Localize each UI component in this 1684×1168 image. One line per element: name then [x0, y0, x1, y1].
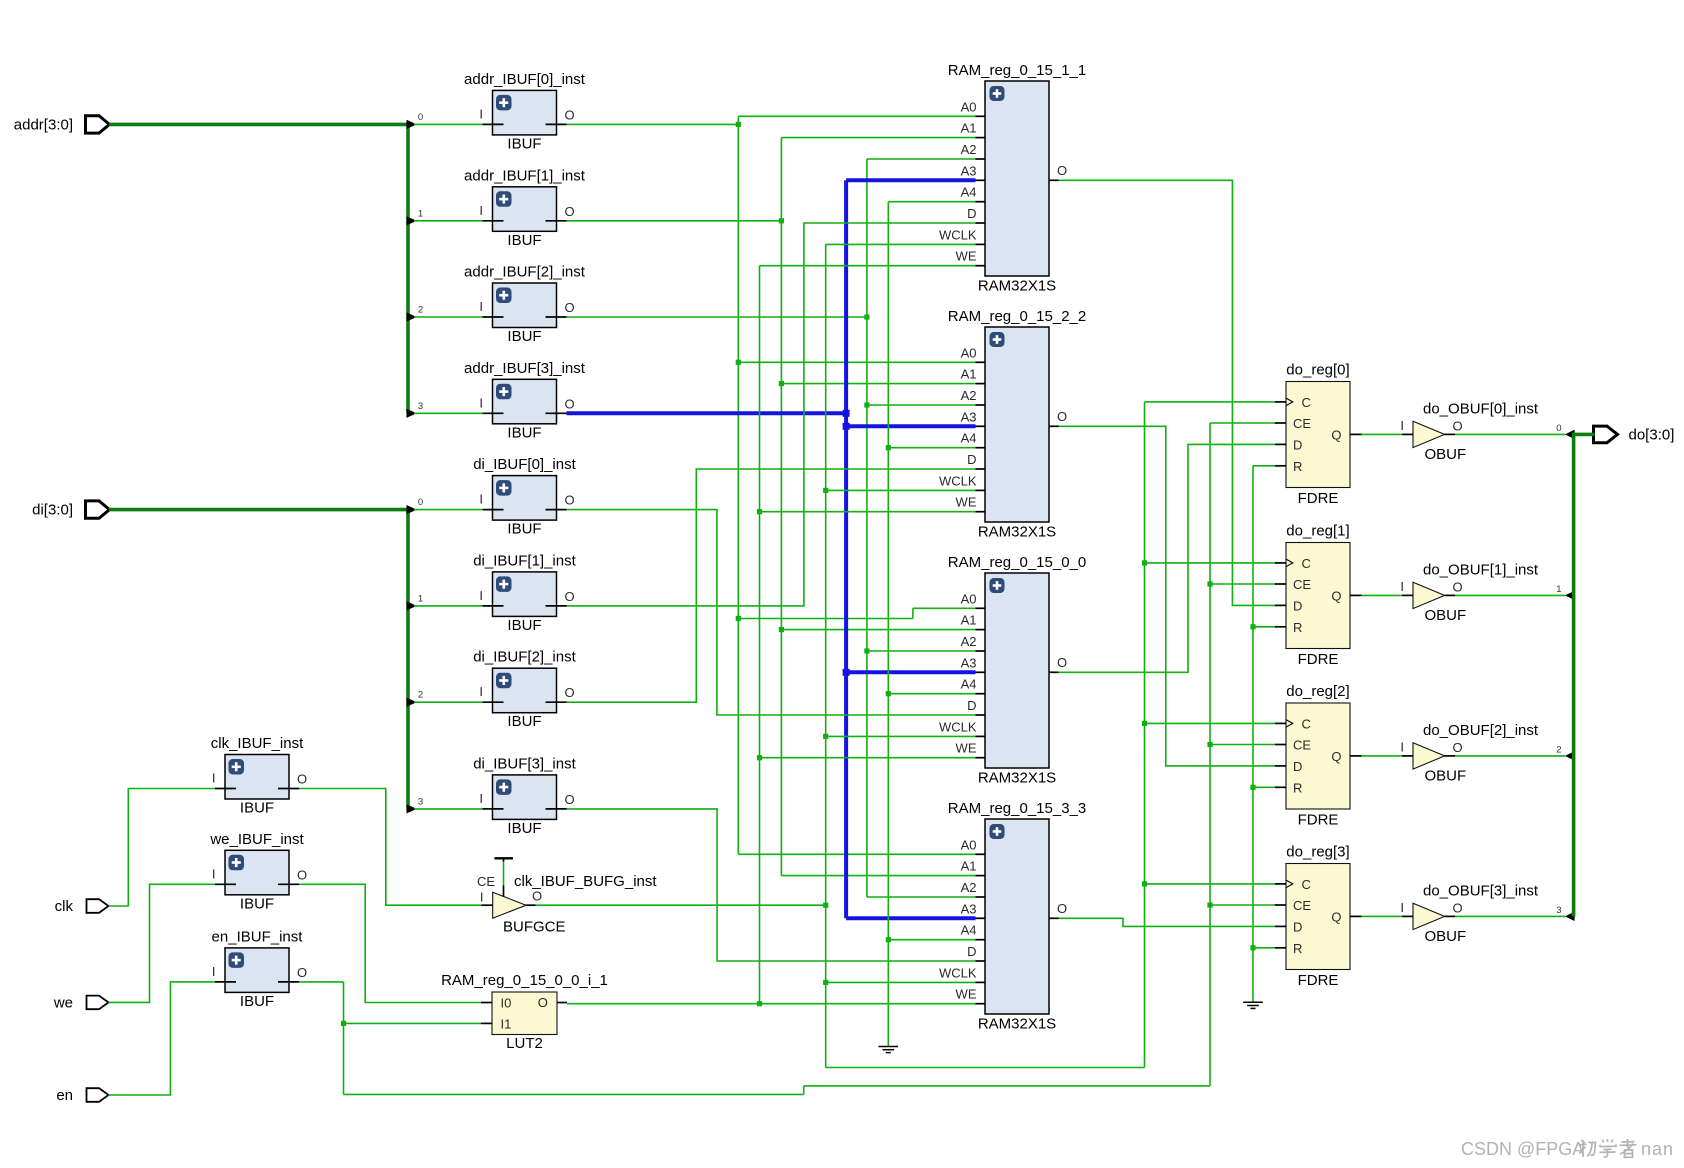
svg-text:D: D: [1293, 437, 1302, 452]
svg-text:WCLK: WCLK: [939, 473, 977, 488]
wire net ground to FDRE R pins: [1250, 466, 1274, 1002]
svg-text:WE: WE: [956, 987, 977, 1002]
svg-text:A3: A3: [961, 163, 977, 178]
svg-text:IBUF: IBUF: [507, 135, 541, 152]
svg-text:WCLK: WCLK: [939, 227, 977, 242]
svg-text:do[3:0]: do[3:0]: [1629, 426, 1675, 443]
svg-text:I: I: [1400, 579, 1404, 594]
LUT2 RAM_reg_0_15_0_0_i_1: [441, 972, 608, 1052]
svg-text:do_reg[0]: do_reg[0]: [1286, 362, 1349, 379]
svg-text:O: O: [1057, 901, 1067, 916]
svg-text:do_OBUF[1]_inst: do_OBUF[1]_inst: [1423, 561, 1539, 578]
svg-text:RAM32X1S: RAM32X1S: [978, 770, 1056, 787]
wire net ground to RAM A4 pins: [886, 202, 976, 1047]
svg-text:0: 0: [418, 112, 423, 123]
svg-text:FDRE: FDRE: [1298, 972, 1339, 989]
svg-text:1: 1: [1556, 584, 1561, 595]
svg-text:do_reg[2]: do_reg[2]: [1286, 683, 1349, 700]
svg-text:I: I: [1400, 418, 1404, 433]
svg-text:C: C: [1302, 716, 1311, 731]
IBUF di_IBUF[0]_inst: [473, 456, 576, 537]
svg-text:O: O: [1057, 655, 1067, 670]
svg-text:I: I: [479, 106, 483, 121]
svg-text:IBUF: IBUF: [240, 800, 274, 817]
svg-text:FDRE: FDRE: [1298, 651, 1339, 668]
svg-text:do_OBUF[0]_inst: do_OBUF[0]_inst: [1423, 400, 1539, 417]
wire net addr_IBUF[2] to RAM A2 pins: [567, 159, 976, 897]
svg-text:D: D: [1293, 598, 1302, 613]
wire do_OBUF[0] output to do bus tap 0: [1455, 423, 1574, 439]
wire we port to we_IBUF input: [109, 884, 216, 1002]
IBUF di_IBUF[3]_inst: [473, 755, 576, 837]
svg-text:D: D: [967, 206, 976, 221]
svg-text:A1: A1: [961, 859, 977, 874]
svg-text:IBUF: IBUF: [240, 895, 274, 912]
ground symbol (FDRE R): [1243, 1002, 1263, 1008]
bus tap arrow di[2]: [407, 690, 424, 707]
svg-text:D: D: [967, 452, 976, 467]
svg-text:RAM_reg_0_15_0_0: RAM_reg_0_15_0_0: [948, 554, 1086, 571]
bus do[3:0] trunk: [1572, 433, 1595, 917]
wire addr[3] tap to IBUF input: [414, 412, 483, 414]
FDRE do_reg[2]: [1275, 683, 1362, 829]
svg-text:A0: A0: [961, 591, 977, 606]
ground symbol (RAM A4): [879, 1047, 899, 1053]
svg-text:O: O: [1453, 418, 1463, 433]
wire di[2] tap to IBUF input: [414, 701, 483, 703]
svg-text:di_IBUF[2]_inst: di_IBUF[2]_inst: [473, 649, 576, 666]
svg-text:IBUF: IBUF: [240, 993, 274, 1010]
svg-text:I: I: [479, 588, 483, 603]
svg-text:O: O: [565, 685, 575, 700]
IBUF we_IBUF_inst: [209, 831, 307, 913]
svg-text:OBUF: OBUF: [1425, 607, 1467, 624]
OBUF do_OBUF[3]_inst: [1400, 882, 1539, 945]
bus tap arrow di[3]: [407, 796, 424, 813]
svg-text:RAM_reg_0_15_1_1: RAM_reg_0_15_1_1: [948, 62, 1086, 79]
svg-text:IBUF: IBUF: [507, 521, 541, 538]
svg-text:BUFGCE: BUFGCE: [503, 919, 566, 936]
wire RAM_reg_0_15_2_2 O to do_reg[2] D: [1059, 426, 1275, 766]
svg-text:O: O: [297, 965, 307, 980]
svg-text:Q: Q: [1331, 749, 1341, 764]
RAM32X1S RAM_reg_0_15_0_0: [939, 554, 1086, 787]
wire di[3] tap to IBUF input: [414, 808, 483, 810]
svg-text:O: O: [1453, 579, 1463, 594]
svg-text:addr_IBUF[2]_inst: addr_IBUF[2]_inst: [464, 264, 586, 281]
svg-text:RAM32X1S: RAM32X1S: [978, 278, 1056, 295]
svg-text:O: O: [565, 300, 575, 315]
wire do_OBUF[2] output to do bus tap 2: [1455, 744, 1574, 760]
svg-text:A2: A2: [961, 880, 977, 895]
FDRE do_reg[3]: [1275, 844, 1362, 990]
svg-text:we_IBUF_inst: we_IBUF_inst: [209, 831, 304, 848]
svg-text:R: R: [1293, 620, 1302, 635]
svg-text:D: D: [967, 698, 976, 713]
wire we_IBUF output to LUT2 I0: [299, 884, 481, 1002]
power symbol VCC (BUFGCE CE tie-high): [494, 858, 513, 861]
svg-text:I: I: [1400, 739, 1404, 754]
wire net di_IBUF[0] to RAM_reg_0_15_0_0 D pin: [567, 510, 976, 715]
svg-text:WE: WE: [956, 741, 977, 756]
svg-text:WCLK: WCLK: [939, 719, 977, 734]
wire do_reg[0] Q to do_OBUF[0] input: [1362, 433, 1403, 435]
svg-text:CE: CE: [477, 874, 495, 889]
input port we: [53, 994, 109, 1011]
svg-text:do_reg[1]: do_reg[1]: [1286, 523, 1349, 540]
IBUF addr_IBUF[3]_inst: [464, 360, 586, 442]
svg-text:A4: A4: [961, 923, 977, 938]
svg-text:I: I: [212, 866, 216, 881]
wire RAM_reg_0_15_3_3 O to do_reg[3] D: [1059, 918, 1275, 926]
bus addr[3:0] trunk: [109, 123, 410, 414]
svg-text:CE: CE: [1293, 738, 1311, 753]
svg-text:I: I: [479, 492, 483, 507]
svg-text:I: I: [479, 203, 483, 218]
svg-text:di_IBUF[3]_inst: di_IBUF[3]_inst: [473, 755, 576, 772]
svg-text:addr_IBUF[0]_inst: addr_IBUF[0]_inst: [464, 71, 586, 88]
svg-text:O: O: [1057, 163, 1067, 178]
svg-text:do_OBUF[3]_inst: do_OBUF[3]_inst: [1423, 882, 1539, 899]
svg-text:2: 2: [418, 305, 423, 316]
svg-text:R: R: [1293, 459, 1302, 474]
svg-text:3: 3: [1556, 905, 1561, 916]
svg-text:di[3:0]: di[3:0]: [32, 502, 73, 519]
svg-text:O: O: [297, 867, 307, 882]
wire do_OBUF[3] output to do bus tap 3: [1455, 905, 1574, 921]
watermark CSDN @FPGA... nan: [1461, 1139, 1674, 1159]
svg-text:I: I: [479, 684, 483, 699]
svg-text:O: O: [297, 772, 307, 787]
bus di[3:0] trunk: [109, 508, 410, 809]
IBUF addr_IBUF[0]_inst: [464, 71, 586, 152]
wire net addr_IBUF[3] (highlighted blue) to RAM A3 pins: [567, 180, 976, 918]
svg-text:A3: A3: [961, 409, 977, 424]
svg-text:IBUF: IBUF: [507, 232, 541, 249]
svg-text:Q: Q: [1331, 909, 1341, 924]
svg-text:IBUF: IBUF: [507, 820, 541, 837]
svg-text:I: I: [479, 299, 483, 314]
IBUF di_IBUF[1]_inst: [473, 552, 576, 634]
wire addr[1] tap to IBUF input: [414, 220, 483, 222]
wire net addr_IBUF[0] to RAM A0 pins: [567, 116, 976, 854]
wire clk port to clk_IBUF input: [109, 789, 216, 907]
svg-text:clk_IBUF_inst: clk_IBUF_inst: [211, 735, 304, 752]
svg-text:IBUF: IBUF: [507, 617, 541, 634]
svg-text:di_IBUF[1]_inst: di_IBUF[1]_inst: [473, 552, 576, 569]
wire do_OBUF[1] output to do bus tap 1: [1455, 584, 1574, 600]
svg-text:1: 1: [418, 208, 423, 219]
bus tap arrow di[1]: [407, 593, 424, 610]
svg-text:addr_IBUF[1]_inst: addr_IBUF[1]_inst: [464, 167, 586, 184]
input port addr[3:0]: [14, 116, 110, 134]
bus tap arrow addr[3]: [407, 401, 424, 418]
svg-text:RAM32X1S: RAM32X1S: [978, 524, 1056, 541]
svg-text:O: O: [565, 792, 575, 807]
input port di[3:0]: [32, 501, 109, 519]
svg-text:do_OBUF[2]_inst: do_OBUF[2]_inst: [1423, 722, 1539, 739]
wire net di_IBUF[2] to RAM_reg_0_15_2_2 D pin: [567, 469, 976, 702]
svg-text:addr[3:0]: addr[3:0]: [14, 116, 73, 133]
wire addr[2] tap to IBUF input: [414, 316, 483, 318]
svg-text:Q: Q: [1331, 588, 1341, 603]
bus tap arrow addr[0]: [407, 112, 424, 129]
svg-text:A3: A3: [961, 901, 977, 916]
svg-text:3: 3: [418, 796, 423, 807]
wire VCC to BUFGCE CE pin: [503, 862, 505, 886]
svg-text:en_IBUF_inst: en_IBUF_inst: [212, 928, 304, 945]
svg-text:en: en: [56, 1087, 73, 1104]
wire di[1] tap to IBUF input: [414, 605, 483, 607]
bus tap arrow addr[2]: [407, 305, 424, 322]
svg-text:IBUF: IBUF: [507, 713, 541, 730]
wire addr[0] tap to IBUF input: [414, 123, 483, 125]
svg-text:A4: A4: [961, 431, 977, 446]
svg-text:nan: nan: [1641, 1139, 1674, 1159]
BUFGCE clk_IBUF_BUFG_inst: [477, 873, 657, 936]
RAM32X1S RAM_reg_0_15_1_1: [939, 62, 1086, 295]
svg-text:A2: A2: [961, 388, 977, 403]
svg-text:O: O: [565, 589, 575, 604]
svg-text:FDRE: FDRE: [1298, 812, 1339, 829]
svg-text:clk: clk: [55, 898, 74, 915]
svg-text:0: 0: [1556, 423, 1561, 434]
svg-text:A4: A4: [961, 185, 977, 200]
svg-text:A0: A0: [961, 345, 977, 360]
input port clk: [55, 898, 109, 915]
svg-text:RAM32X1S: RAM32X1S: [978, 1016, 1056, 1033]
svg-text:RAM_reg_0_15_3_3: RAM_reg_0_15_3_3: [948, 800, 1086, 817]
wire net LUT2 output to RAM WE pins: [567, 266, 976, 1007]
bus tap arrow addr[1]: [407, 208, 424, 225]
svg-text:A3: A3: [961, 655, 977, 670]
svg-text:CSDN @FPGA: CSDN @FPGA: [1461, 1139, 1584, 1159]
svg-text:O: O: [565, 107, 575, 122]
svg-text:IBUF: IBUF: [507, 328, 541, 345]
wire clk_IBUF output to BUFGCE input: [299, 789, 482, 906]
svg-text:O: O: [565, 493, 575, 508]
IBUF addr_IBUF[2]_inst: [464, 264, 586, 346]
svg-text:di_IBUF[0]_inst: di_IBUF[0]_inst: [473, 456, 576, 473]
wire RAM_reg_0_15_0_0 O to do_reg[0] D: [1059, 444, 1275, 672]
svg-text:O: O: [565, 396, 575, 411]
wire net clk_IBUF_BUFG to RAM WCLK pins and FDRE C pins: [536, 244, 1275, 1067]
svg-text:I1: I1: [501, 1016, 512, 1031]
svg-text:R: R: [1293, 941, 1302, 956]
FDRE do_reg[1]: [1275, 523, 1362, 669]
svg-text:addr_IBUF[3]_inst: addr_IBUF[3]_inst: [464, 360, 586, 377]
wire di[0] tap to IBUF input: [414, 509, 483, 511]
svg-text:CE: CE: [1293, 577, 1311, 592]
svg-text:O: O: [1057, 409, 1067, 424]
svg-text:A1: A1: [961, 121, 977, 136]
svg-text:WE: WE: [956, 249, 977, 264]
svg-text:A1: A1: [961, 613, 977, 628]
svg-text:A0: A0: [961, 99, 977, 114]
svg-text:we: we: [53, 994, 73, 1011]
FDRE do_reg[0]: [1275, 362, 1362, 508]
svg-text:C: C: [1302, 395, 1311, 410]
svg-text:I: I: [212, 964, 216, 979]
svg-text:D: D: [1293, 759, 1302, 774]
input port en: [56, 1087, 108, 1104]
svg-text:OBUF: OBUF: [1425, 767, 1467, 784]
svg-text:A1: A1: [961, 367, 977, 382]
svg-text:RAM_reg_0_15_2_2: RAM_reg_0_15_2_2: [948, 308, 1086, 325]
svg-text:I: I: [479, 395, 483, 410]
svg-text:C: C: [1302, 877, 1311, 892]
svg-text:FDRE: FDRE: [1298, 490, 1339, 507]
svg-text:IBUF: IBUF: [507, 424, 541, 441]
wire net di_IBUF[3] to RAM_reg_0_15_3_3 D pin: [567, 809, 976, 961]
OBUF do_OBUF[1]_inst: [1400, 561, 1539, 624]
svg-text:3: 3: [418, 401, 423, 412]
svg-text:O: O: [1453, 740, 1463, 755]
svg-text:C: C: [1302, 556, 1311, 571]
output port do[3:0]: [1594, 426, 1675, 443]
svg-text:I: I: [212, 771, 216, 786]
svg-text:OBUF: OBUF: [1425, 446, 1467, 463]
svg-text:O: O: [1453, 900, 1463, 915]
svg-text:A2: A2: [961, 634, 977, 649]
wire net en_IBUF output to LUT2 I1 and FDRE CE pins: [299, 423, 1275, 1094]
wire do_reg[2] Q to do_OBUF[2] input: [1362, 755, 1403, 757]
wire en port to en_IBUF input: [109, 982, 216, 1095]
svg-text:I: I: [1400, 900, 1404, 915]
svg-text:I: I: [479, 791, 483, 806]
wire do_reg[1] Q to do_OBUF[1] input: [1362, 594, 1403, 596]
svg-text:D: D: [1293, 919, 1302, 934]
svg-text:D: D: [967, 944, 976, 959]
svg-text:O: O: [538, 995, 548, 1010]
svg-text:WCLK: WCLK: [939, 965, 977, 980]
svg-text:2: 2: [418, 690, 423, 701]
svg-text:Q: Q: [1331, 427, 1341, 442]
svg-text:do_reg[3]: do_reg[3]: [1286, 844, 1349, 861]
svg-text:O: O: [565, 204, 575, 219]
svg-text:clk_IBUF_BUFG_inst: clk_IBUF_BUFG_inst: [514, 873, 657, 890]
svg-text:A2: A2: [961, 142, 977, 157]
svg-text:R: R: [1293, 780, 1302, 795]
OBUF do_OBUF[2]_inst: [1400, 722, 1539, 785]
wire net addr_IBUF[1] to RAM A1 pins: [567, 138, 976, 876]
RAM32X1S RAM_reg_0_15_2_2: [939, 308, 1086, 541]
bus tap arrow di[0]: [407, 497, 424, 514]
wire do_reg[3] Q to do_OBUF[3] input: [1362, 915, 1403, 917]
svg-text:O: O: [532, 889, 542, 904]
svg-text:2: 2: [1556, 744, 1561, 755]
svg-text:WE: WE: [956, 495, 977, 510]
svg-text:A0: A0: [961, 837, 977, 852]
svg-text:LUT2: LUT2: [506, 1035, 543, 1052]
RAM32X1S RAM_reg_0_15_3_3: [939, 800, 1086, 1033]
svg-text:0: 0: [418, 497, 423, 508]
svg-text:RAM_reg_0_15_0_0_i_1: RAM_reg_0_15_0_0_i_1: [441, 972, 608, 989]
wire net di_IBUF[1] to RAM_reg_0_15_1_1 D pin: [567, 223, 976, 606]
svg-text:I0: I0: [501, 996, 512, 1011]
wire RAM_reg_0_15_1_1 O to do_reg[1] D: [1059, 180, 1275, 605]
OBUF do_OBUF[0]_inst: [1400, 400, 1539, 463]
IBUF en_IBUF_inst: [212, 928, 308, 1010]
IBUF clk_IBUF_inst: [211, 735, 307, 817]
svg-text:1: 1: [418, 593, 423, 604]
svg-text:CE: CE: [1293, 416, 1311, 431]
svg-text:OBUF: OBUF: [1425, 928, 1467, 945]
IBUF addr_IBUF[1]_inst: [464, 167, 586, 249]
svg-text:A4: A4: [961, 677, 977, 692]
svg-text:I: I: [480, 890, 484, 905]
svg-text:CE: CE: [1293, 898, 1311, 913]
IBUF di_IBUF[2]_inst: [473, 649, 576, 731]
